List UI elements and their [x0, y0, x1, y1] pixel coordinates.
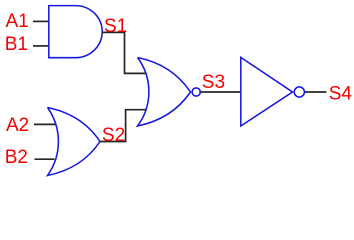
wire S2 net: OR output to NOR bottom input: [100, 110, 146, 142]
svg-text:S3: S3: [202, 72, 225, 93]
wire S1 net: AND output to NOR top input: [102, 32, 146, 73]
svg-text:B1: B1: [5, 34, 28, 55]
svg-text:S4: S4: [329, 84, 353, 105]
OR gate U2: [48, 108, 101, 176]
inverter U4 body: [241, 57, 293, 126]
NOR gate U3 output bubble: [192, 88, 200, 96]
inverter U4 output bubble: [294, 87, 304, 97]
svg-text:S1: S1: [104, 16, 127, 37]
svg-text:A1: A1: [6, 11, 29, 32]
wire B1 input stub: [33, 45, 49, 47]
wire S4 output stub: [305, 91, 327, 93]
wire A2 input stub: [34, 123, 56, 125]
wire B2 input stub: [35, 158, 55, 160]
wire S3 net: NOR output to inverter input: [201, 91, 241, 93]
svg-text:S2: S2: [102, 125, 125, 146]
NOR gate U3 body: [138, 58, 191, 127]
svg-text:A2: A2: [6, 115, 29, 136]
svg-text:B2: B2: [5, 147, 28, 168]
wire A1 input stub: [33, 20, 49, 22]
AND gate U1: [49, 6, 102, 58]
